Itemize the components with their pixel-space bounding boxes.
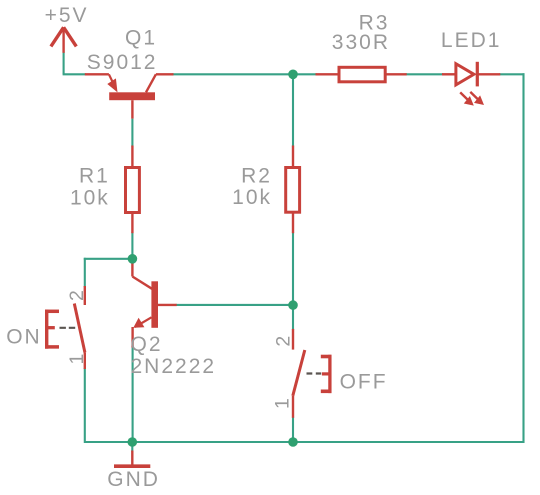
svg-text:GND: GND [107, 468, 160, 491]
svg-text:R2: R2 [241, 165, 272, 188]
wire Q2 base to node B [176, 304, 293, 306]
node A (R1 / ON / Q2 collector) [128, 254, 138, 264]
wire top rail Q1 collector to R3 [173, 73, 317, 75]
wire right rail vertical [522, 73, 524, 443]
resistor R3 [316, 67, 407, 82]
wire OFF switch pin1 to bottom rail [292, 417, 294, 442]
wire node A to left [84, 258, 133, 260]
switch OFF (pushbutton) [293, 329, 332, 418]
node GND junction [128, 437, 138, 447]
wire left drop to ON switch [84, 258, 86, 287]
svg-text:R1: R1 [79, 164, 110, 187]
LED LED1 [442, 62, 500, 106]
node B (Q2 base / R2 / OFF) [288, 300, 298, 310]
svg-text:2: 2 [66, 288, 88, 301]
wire R1 bottom to node A [131, 232, 133, 259]
wire LED1 to right corner [499, 73, 524, 75]
svg-text:Q1: Q1 [125, 27, 157, 50]
svg-text:10k: 10k [232, 186, 272, 209]
transistor Q2 [132, 259, 176, 348]
svg-text:ON: ON [6, 325, 42, 348]
switch ON (pushbutton) [45, 286, 85, 369]
wire +5V corner to Q1 emitter [63, 73, 86, 75]
wire node B to OFF switch pin2 [292, 305, 294, 330]
svg-text:Q2: Q2 [131, 333, 163, 356]
wire Q2 emitter to bottom rail [132, 347, 134, 443]
svg-text:LED1: LED1 [441, 29, 502, 52]
svg-text:2N2222: 2N2222 [131, 355, 217, 378]
ground GND [114, 451, 150, 467]
transistor Q1 [85, 74, 174, 118]
wire R2 top [292, 74, 294, 146]
node top rail / R2 junction [288, 70, 298, 80]
power +5V symbol [51, 27, 76, 53]
resistor R2 [286, 146, 300, 234]
wire ON switch pin1 to bottom rail [84, 368, 86, 443]
wire R3 to LED1 [406, 73, 443, 75]
wire +5V stem green [63, 52, 65, 75]
svg-text:1: 1 [66, 352, 88, 365]
resistor R1 [126, 146, 140, 234]
svg-text:10k: 10k [70, 186, 110, 209]
svg-text:S9012: S9012 [87, 51, 158, 74]
wire Q1 base to R1 [131, 119, 133, 147]
svg-text:2: 2 [273, 334, 295, 347]
svg-text:+5V: +5V [45, 4, 89, 27]
svg-text:OFF: OFF [340, 370, 388, 393]
node OFF / bottom rail junction [288, 437, 298, 447]
wire bottom rail [85, 441, 525, 443]
svg-text:1: 1 [271, 396, 293, 409]
wire GND stem green [131, 442, 133, 452]
svg-text:330R: 330R [332, 31, 390, 54]
wire R2 bottom to node B [292, 232, 294, 305]
